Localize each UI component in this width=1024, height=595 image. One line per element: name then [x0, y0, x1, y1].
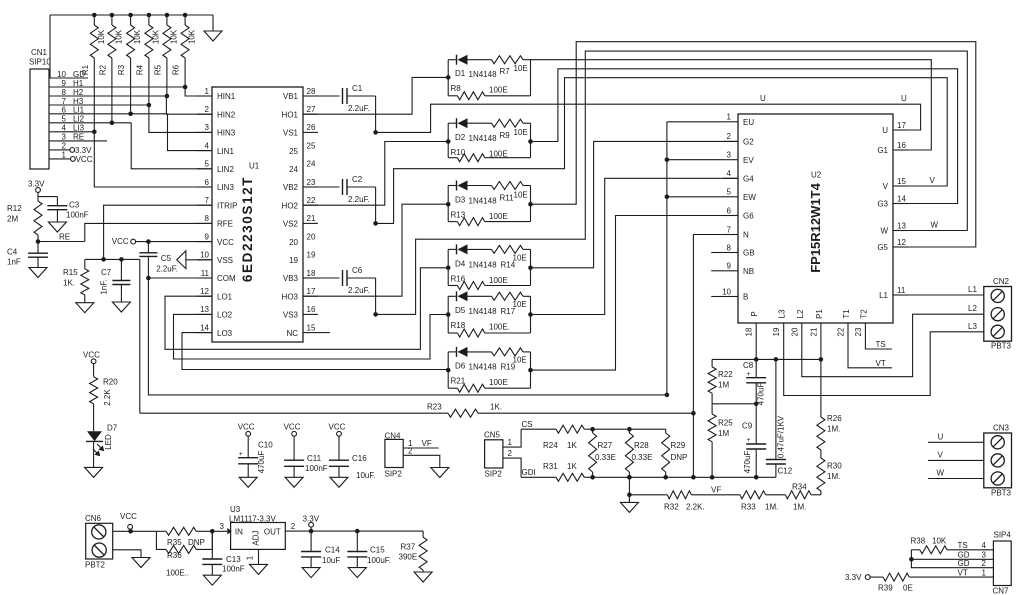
wire HO1 to D1 [303, 77, 448, 114]
wire LO3 to D6 [182, 333, 448, 370]
svg-text:G3: G3 [877, 200, 888, 209]
svg-text:10K: 10K [169, 29, 178, 44]
svg-text:L1: L1 [968, 285, 977, 294]
svg-text:CN7: CN7 [993, 587, 1010, 595]
svg-text:2.2K.: 2.2K. [686, 503, 705, 512]
svg-text:EU: EU [743, 118, 754, 127]
capacitor C13 100nF [202, 531, 244, 575]
pin 3 U1 HIN3 [197, 123, 236, 137]
svg-text:VCC: VCC [76, 155, 93, 164]
junction RE node [36, 239, 41, 244]
node VCC C10 [238, 423, 255, 437]
svg-text:1K: 1K [567, 441, 577, 450]
svg-text:D6: D6 [455, 362, 466, 371]
junction C12 top [774, 357, 779, 362]
svg-text:P1: P1 [815, 309, 824, 319]
capacitor C6 2.2uF [318, 266, 376, 295]
pin 14 U1 LO3 [197, 323, 233, 337]
svg-text:1K.: 1K. [490, 403, 502, 412]
wire C2 to VS junction [375, 187, 377, 223]
svg-text:VCC: VCC [112, 237, 129, 246]
pin 9 U1 VCC [197, 232, 234, 246]
junction R27 bottom [590, 475, 595, 480]
svg-text:HIN2: HIN2 [217, 110, 236, 119]
svg-text:17: 17 [307, 287, 316, 296]
wire L1 to CN2 [908, 294, 984, 296]
ground R15 [76, 303, 94, 313]
svg-text:R39: R39 [878, 584, 893, 593]
svg-text:14: 14 [897, 194, 906, 203]
svg-text:VCC: VCC [238, 423, 255, 432]
svg-text:TS: TS [876, 340, 886, 349]
pin 14 U2 G3 [877, 194, 908, 208]
wire rail to VF junction [628, 477, 630, 495]
svg-text:VCC: VCC [284, 423, 301, 432]
resistor R35 DNP [156, 527, 212, 547]
svg-text:1K: 1K [567, 462, 577, 471]
ground VF [620, 495, 638, 513]
wire VSS [186, 259, 212, 261]
svg-text:16: 16 [897, 141, 906, 150]
capacitor C7 1nF [100, 259, 131, 302]
wire LI2 to U1 LIN2 [131, 123, 212, 169]
svg-text:2: 2 [508, 449, 513, 458]
node VCC U1 [112, 237, 136, 246]
svg-text:V: V [883, 182, 889, 191]
op-amp U3 LM1117-3.3V body [227, 505, 285, 549]
junction VCC CN6 [128, 529, 133, 534]
svg-text:V: V [930, 176, 936, 185]
svg-text:8: 8 [727, 243, 732, 252]
svg-text:100nF: 100nF [305, 464, 328, 473]
svg-text:11: 11 [897, 286, 906, 295]
junction C13 node [210, 529, 215, 534]
svg-text:V: V [938, 451, 944, 460]
svg-text:10K: 10K [932, 537, 947, 546]
capacitor C16 10uF. [329, 436, 376, 480]
pin 3 U2 EV [723, 151, 754, 165]
pin 12 U2 G5 [877, 238, 908, 252]
junction R27 top [590, 427, 595, 432]
pin 1 U3 ADJ stub [246, 549, 259, 564]
svg-text:5: 5 [205, 160, 210, 169]
svg-text:5: 5 [727, 188, 732, 197]
junction D5 right node [528, 312, 533, 317]
wire LI1 to U1 LIN1 [168, 114, 213, 151]
pin 23 U2 T2 [854, 309, 869, 337]
svg-text:L2: L2 [968, 304, 977, 313]
svg-text:23: 23 [854, 327, 863, 336]
wire CN4 pin1 VF [403, 439, 438, 448]
capacitor C9 470uF [742, 404, 766, 478]
ground D7 [85, 467, 103, 477]
svg-text:LO2: LO2 [217, 311, 233, 320]
svg-text:VF: VF [422, 439, 432, 448]
svg-text:4: 4 [982, 541, 987, 550]
svg-text:R15: R15 [63, 268, 78, 277]
wire CN6 pin1 VCC [113, 530, 157, 532]
svg-text:PBT3: PBT3 [991, 488, 1012, 497]
svg-text:VF: VF [711, 486, 721, 495]
resistor R15 1K [63, 259, 89, 302]
svg-text:10E: 10E [513, 253, 527, 262]
junction P C8 [754, 357, 759, 362]
svg-text:9: 9 [205, 232, 210, 241]
svg-text:LIN3: LIN3 [217, 183, 234, 192]
svg-text:12: 12 [897, 238, 906, 247]
junction emitter bus [665, 393, 670, 398]
node 3.3V R12 [28, 180, 45, 193]
svg-text:VCC: VCC [120, 512, 137, 521]
pin 26 U1 VS1 [283, 123, 318, 137]
junction EV riser [665, 157, 670, 162]
svg-text:R33: R33 [741, 503, 756, 512]
svg-text:12: 12 [200, 287, 209, 296]
svg-text:1: 1 [508, 438, 513, 447]
svg-text:1M.: 1M. [827, 425, 840, 434]
svg-text:1N4148: 1N4148 [469, 197, 498, 206]
svg-text:ADJ: ADJ [252, 530, 261, 545]
wire U phase from VS1 [376, 104, 921, 132]
svg-text:VS1: VS1 [283, 129, 299, 138]
pin 2 U1 HIN2 [197, 105, 236, 119]
junction bus R3 [128, 13, 133, 18]
svg-text:+: + [239, 451, 243, 458]
diode D3 1N4148 network [448, 181, 530, 226]
svg-text:0.33E: 0.33E [595, 453, 616, 462]
svg-text:LED: LED [104, 434, 113, 450]
node VCC CN1 [71, 157, 76, 162]
svg-text:8: 8 [205, 214, 210, 223]
pin 7 U2 N [723, 225, 749, 239]
svg-text:G2: G2 [743, 138, 754, 147]
svg-text:R36: R36 [167, 551, 182, 560]
svg-text:PBT3: PBT3 [991, 342, 1012, 351]
svg-text:R34: R34 [792, 483, 807, 492]
connector CN3 PBT3 [984, 424, 1012, 498]
junction ITRIP rail [101, 257, 106, 262]
junction VS C6 [373, 312, 378, 317]
svg-text:10E: 10E [514, 191, 528, 200]
pin 17 U2 U [882, 121, 908, 135]
svg-text:25: 25 [307, 141, 316, 150]
svg-text:2: 2 [982, 559, 987, 568]
connector CN5 SIP2 [484, 431, 503, 479]
junction D2 left node [446, 139, 451, 144]
wire U stub CN3 [928, 433, 984, 443]
op-amp U1 6ED2230S12T body [212, 87, 303, 342]
wire NC stub [318, 332, 330, 334]
diode D6 1N4148 network [448, 347, 530, 392]
wire G3 net D2 to U2 [531, 69, 958, 204]
wire T1 to VT stub [848, 337, 892, 368]
svg-text:C11: C11 [307, 454, 322, 463]
svg-text:R29: R29 [671, 441, 686, 450]
svg-text:3: 3 [205, 123, 210, 132]
wire GDI rail [521, 462, 776, 481]
svg-text:R3: R3 [117, 64, 126, 75]
svg-text:2: 2 [291, 522, 296, 531]
junction EW riser [665, 195, 670, 200]
svg-text:R32: R32 [664, 503, 679, 512]
svg-text:100E: 100E [489, 378, 508, 387]
wire LI3 row [49, 131, 94, 133]
junction R4 bottom [147, 103, 152, 108]
svg-text:18: 18 [745, 327, 754, 336]
svg-text:10K: 10K [133, 29, 142, 44]
svg-text:2.2uF.: 2.2uF. [348, 286, 370, 295]
junction R5 bottom [165, 94, 170, 99]
svg-text:D4: D4 [455, 259, 466, 268]
svg-text:1N4148: 1N4148 [469, 70, 498, 79]
junction R1 bottom [92, 130, 97, 135]
diode D5 1N4148 network [448, 291, 530, 337]
svg-text:R18: R18 [451, 321, 466, 330]
svg-text:R31: R31 [543, 462, 558, 471]
junction D1 left node [446, 75, 451, 80]
junction VCC C5 [146, 239, 151, 244]
pin 1 U2 EU [723, 113, 754, 127]
wire P rail [712, 358, 821, 360]
wire N net [693, 235, 723, 478]
svg-text:R8: R8 [451, 84, 462, 93]
wire V phase from VS2 [376, 78, 948, 224]
pin 8 U1 RFE [197, 214, 233, 228]
ground C13 [203, 575, 221, 585]
svg-text:RE: RE [59, 233, 70, 242]
svg-text:T1: T1 [842, 309, 851, 319]
wire H3 row to R4 [49, 104, 149, 106]
resistor R25 1M [708, 404, 733, 478]
svg-text:1nF: 1nF [7, 258, 21, 267]
pin 21 U2 P1 [809, 309, 824, 337]
svg-text:6: 6 [727, 206, 732, 215]
svg-text:GB: GB [743, 249, 755, 258]
wire LO1 to D4 [165, 268, 448, 350]
wire CN6 pin2 to ground [113, 550, 141, 558]
svg-text:R22: R22 [718, 370, 733, 379]
wire emitter riser [666, 122, 668, 395]
svg-text:7: 7 [205, 196, 210, 205]
wire HO2 to D2 [303, 142, 448, 206]
capacitor C3 100nF [38, 197, 89, 222]
resistor R38 10K [911, 537, 994, 554]
pin 8 U2 GB [723, 243, 755, 257]
ground C15 [348, 568, 366, 578]
svg-text:9: 9 [727, 262, 732, 271]
svg-text:R13: R13 [451, 211, 466, 220]
capacitor C2 2.2uF [318, 175, 376, 204]
svg-text:U1: U1 [249, 162, 260, 171]
svg-text:13: 13 [897, 221, 906, 230]
svg-text:VT: VT [876, 359, 886, 368]
wire G1 net D1 to U2 [531, 60, 932, 150]
wire RE to RFE [38, 223, 212, 241]
svg-text:3.3V: 3.3V [75, 146, 92, 155]
wire LI1 row [49, 113, 168, 115]
node 3.3V CN1 [70, 148, 75, 153]
svg-text:10E: 10E [513, 356, 527, 365]
svg-text:PBT2: PBT2 [85, 561, 106, 570]
svg-text:G4: G4 [743, 175, 754, 184]
svg-text:10uF.: 10uF. [356, 471, 376, 480]
wire C1 to VS junction [375, 96, 377, 132]
svg-text:LIN1: LIN1 [217, 147, 234, 156]
svg-text:EV: EV [743, 156, 754, 165]
wire LO2 to D5 [174, 314, 449, 359]
svg-text:3: 3 [727, 151, 732, 160]
svg-text:10: 10 [200, 251, 209, 260]
svg-text:R10: R10 [451, 148, 466, 157]
svg-text:U3: U3 [230, 505, 241, 514]
svg-text:C12: C12 [778, 467, 793, 476]
svg-text:3: 3 [220, 522, 225, 531]
pin 13 U2 W [880, 221, 908, 235]
svg-text:C9: C9 [742, 422, 753, 431]
ground R37 [414, 572, 432, 582]
diode D1 1N4148 network [448, 55, 530, 100]
wire GD pin3 [911, 551, 993, 560]
resistor R20 2.2K [90, 364, 119, 432]
svg-text:22: 22 [307, 196, 316, 205]
ground top-right [212, 15, 214, 31]
wire LI3 to U1 LIN3 [94, 132, 212, 187]
capacitor C1 2.2uF [318, 84, 376, 113]
wire CN4 pin2 to ground [403, 446, 440, 467]
node VCC C16 [329, 423, 346, 437]
svg-text:HO2: HO2 [282, 201, 299, 210]
svg-text:470uF: 470uF [257, 451, 266, 474]
pin 5 U1 LIN2 [197, 160, 234, 174]
pin 15 U2 V [883, 177, 908, 191]
wire T2 to TS stub [865, 337, 892, 349]
svg-text:+: + [747, 371, 751, 378]
svg-text:6: 6 [205, 178, 210, 187]
resistor R29 DNP [662, 429, 688, 477]
node VCC LED [83, 351, 100, 364]
junction D4 left node [446, 266, 451, 271]
svg-text:2: 2 [727, 132, 732, 141]
svg-text:COM: COM [217, 274, 236, 283]
svg-text:15: 15 [307, 323, 316, 332]
svg-text:3.3V: 3.3V [845, 573, 862, 582]
svg-text:100E: 100E [489, 85, 508, 94]
svg-text:1M: 1M [718, 381, 729, 390]
symbol VSS triangle [177, 251, 186, 269]
svg-text:10E: 10E [514, 128, 528, 137]
svg-text:R12: R12 [7, 204, 22, 213]
svg-text:19: 19 [289, 256, 298, 265]
wire C6 to VS junction [375, 278, 377, 314]
pin 11 U2 L1 [879, 286, 908, 300]
svg-text:R20: R20 [103, 378, 118, 387]
wire NB stub [711, 270, 723, 272]
junction D6 left node [446, 368, 451, 373]
svg-text:D7: D7 [107, 423, 118, 432]
svg-text:19: 19 [772, 327, 781, 336]
svg-text:VB1: VB1 [283, 92, 299, 101]
junction bus R4 [147, 13, 152, 18]
wire GD drop to CN1 pin10 [49, 15, 51, 78]
resistor R32 2.2K [629, 491, 740, 512]
pin 10 U1 VSS [197, 251, 233, 265]
svg-text:10E: 10E [513, 300, 527, 309]
svg-text:D5: D5 [455, 306, 466, 315]
pin 18 U2 P [745, 311, 760, 337]
svg-text:C8: C8 [743, 361, 754, 370]
pin 20 U1 20 [289, 232, 316, 246]
svg-text:CN1: CN1 [31, 48, 48, 57]
svg-text:R4: R4 [135, 64, 144, 75]
svg-text:3.3V: 3.3V [28, 180, 45, 189]
svg-text:1N4148: 1N4148 [469, 307, 498, 316]
svg-text:0E: 0E [903, 584, 913, 593]
ground C10 [239, 477, 257, 487]
wire L3 route [784, 332, 984, 396]
wire VCC pin9 [136, 241, 212, 243]
junction N rail [691, 475, 696, 480]
ground C14 [302, 568, 320, 578]
svg-text:R27: R27 [598, 441, 613, 450]
svg-text:2.2uF.: 2.2uF. [156, 265, 178, 274]
pin 11 U1 COM [197, 269, 236, 283]
svg-text:R7: R7 [500, 67, 511, 76]
svg-text:2.2K: 2.2K [103, 389, 112, 406]
svg-text:4: 4 [205, 141, 210, 150]
pin 19 U2 L3 [772, 309, 787, 337]
resistor R39 0E [870, 568, 993, 592]
LED D7 [86, 423, 118, 467]
ground C11 [285, 477, 303, 487]
svg-text:1M.: 1M. [765, 503, 778, 512]
wire GB stub [711, 252, 723, 254]
svg-text:10uF: 10uF [322, 556, 340, 565]
resistor R22 1M [708, 359, 733, 403]
svg-text:U: U [882, 126, 888, 135]
svg-text:HO1: HO1 [282, 110, 299, 119]
svg-text:SIP4: SIP4 [994, 531, 1012, 540]
svg-text:G5: G5 [877, 243, 888, 252]
svg-text:100uF.: 100uF. [367, 556, 391, 565]
svg-text:C3: C3 [69, 201, 80, 210]
svg-text:R35: R35 [167, 538, 182, 547]
svg-text:U: U [901, 94, 907, 103]
svg-text:1: 1 [205, 87, 210, 96]
svg-text:7: 7 [727, 225, 732, 234]
svg-text:DNP: DNP [188, 538, 205, 547]
ground C4 [29, 268, 47, 278]
resistor R12 2M [7, 192, 42, 241]
resistor R4 10K [135, 15, 160, 105]
svg-text:R30: R30 [827, 462, 842, 471]
resistor R37 390E [399, 531, 428, 572]
svg-text:L3: L3 [968, 322, 977, 331]
junction D3 left node [446, 202, 451, 207]
junction D6 right node [528, 368, 533, 373]
svg-text:W: W [931, 221, 939, 230]
svg-text:2: 2 [408, 446, 413, 455]
pin 9 U2 NB [723, 262, 754, 276]
junction bus R5 [165, 13, 170, 18]
svg-text:VS2: VS2 [283, 220, 299, 229]
svg-text:10K: 10K [114, 29, 123, 44]
pin 18 U1 VB3 [283, 269, 318, 283]
svg-text:NB: NB [743, 267, 754, 276]
svg-text:2: 2 [205, 105, 210, 114]
svg-text:100E.: 100E. [489, 323, 510, 332]
svg-text:VS3: VS3 [283, 311, 299, 320]
svg-text:100E: 100E [489, 212, 508, 221]
